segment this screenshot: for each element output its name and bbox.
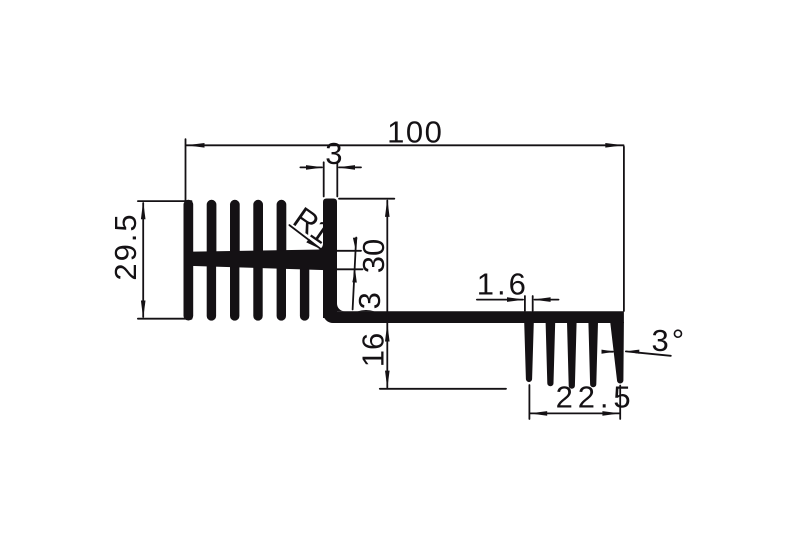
down fin 3 xyxy=(230,262,239,321)
ext 1.6 left xyxy=(524,296,526,311)
arrow 22.5 left xyxy=(530,411,548,416)
svg-text:29.5: 29.5 xyxy=(108,212,143,280)
web tick upper xyxy=(337,250,361,252)
dim line 29.5 xyxy=(142,203,144,317)
svg-text:3°: 3° xyxy=(652,323,688,358)
dim line 30/16 vertical xyxy=(386,201,388,388)
base plate with rounded left-bottom corner xyxy=(323,250,624,323)
3deg leader xyxy=(626,351,671,355)
ext line 16 bottom xyxy=(380,388,506,390)
right fin E (edge fin) xyxy=(610,322,624,383)
arrow 100 right xyxy=(605,143,623,148)
arrow 3deg pointing right xyxy=(602,350,615,354)
arrow 16 bottom xyxy=(385,371,390,389)
ext line 3top right xyxy=(336,162,338,196)
dim 3top left shaft xyxy=(300,166,322,168)
web-bar fillet R1 xyxy=(317,244,323,250)
svg-text:16: 16 xyxy=(356,333,391,367)
right fin C xyxy=(567,322,577,389)
svg-text:3: 3 xyxy=(352,292,387,309)
right fin A xyxy=(524,322,534,382)
left wall fin (full height) xyxy=(184,200,194,321)
center web xyxy=(186,249,337,270)
arrow 29.5 top xyxy=(141,201,146,219)
arrow 30 top xyxy=(385,199,390,217)
R1 leader xyxy=(289,225,320,249)
down fin 2 xyxy=(207,262,216,321)
arrow web3 up xyxy=(352,270,357,283)
arrow web3 down xyxy=(353,238,358,251)
arrow 3top right xyxy=(337,165,355,170)
dim 1.6 right shaft xyxy=(535,299,559,301)
up fin 2 xyxy=(207,200,217,258)
up fin 4 xyxy=(253,200,263,258)
arrow 16 top xyxy=(385,324,390,342)
web 3 slanted leader xyxy=(353,238,357,310)
svg-text:3: 3 xyxy=(325,136,342,171)
arrow R1 xyxy=(306,239,322,250)
down fin 6 xyxy=(300,262,309,321)
3deg left arrow shaft xyxy=(604,351,614,353)
ext line 100 left xyxy=(185,139,187,201)
arrow 3deg pointing left xyxy=(626,350,639,354)
svg-text:100: 100 xyxy=(387,115,443,150)
up fin 3 xyxy=(230,200,240,258)
svg-text:1.6: 1.6 xyxy=(477,266,529,301)
right fin B xyxy=(546,322,556,386)
web tick lower xyxy=(337,268,363,270)
dim line 22.5 xyxy=(530,412,620,414)
ext 22.5 left xyxy=(528,385,530,419)
dim 3top right shaft xyxy=(339,166,361,168)
arrow 1.6 left-pointing xyxy=(533,297,551,302)
ext 22.5 right xyxy=(619,386,621,420)
ext line 100 right xyxy=(623,147,625,311)
dim 1.6 left shaft xyxy=(477,299,523,301)
dim line 100 xyxy=(186,144,623,146)
down fin 4 xyxy=(253,262,262,321)
svg-text:22.5: 22.5 xyxy=(556,380,636,415)
right fin D xyxy=(588,322,598,387)
ext 1.6 right xyxy=(532,296,534,311)
arrow 29.5 bottom xyxy=(141,301,146,319)
vertical bar xyxy=(323,199,337,319)
ext line 29.5 top xyxy=(138,200,192,202)
ext line 3top left xyxy=(323,162,325,196)
arrow 1.6 right-pointing xyxy=(507,297,525,302)
arrow 22.5 right xyxy=(602,411,620,416)
up fin 5 xyxy=(277,200,287,258)
arrow 100 left xyxy=(186,143,204,148)
down fin 5 xyxy=(277,262,286,321)
base-top arrowhead bump xyxy=(358,310,375,311)
arrow 3top left xyxy=(306,165,324,170)
ext line 29.5 bottom xyxy=(138,318,192,320)
ext line 30 top xyxy=(339,198,394,200)
bar-base inner fillet xyxy=(337,304,345,312)
svg-text:30: 30 xyxy=(356,239,391,273)
